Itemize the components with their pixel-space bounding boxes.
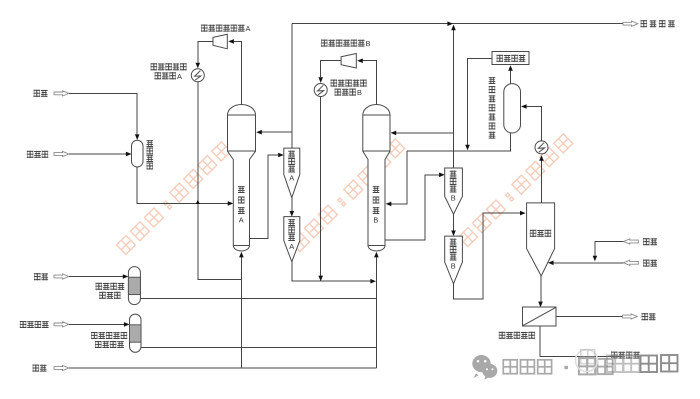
vessel: degasser tank A1 (脱气罐A) [284, 148, 300, 198]
flag: catalyst feed arrow [54, 151, 69, 156]
svg-text:B: B [451, 262, 456, 271]
equipment: tail gas compression box (尾气压缩) [492, 52, 529, 65]
flag: steam inlet arrow [624, 260, 639, 265]
svg-text:B: B [357, 88, 362, 97]
compressor C-B: recycle gas compressor B [341, 54, 356, 69]
label: degasser tank A1 vertical [288, 151, 295, 183]
vessel: ethylene dehydrator-deoxidizer (乙烯脱水脱氧器) [128, 267, 140, 305]
watermark: wechat icon [472, 355, 497, 380]
pipe: degasser B1 overhead riser to purge header [451, 25, 456, 168]
heat-exchanger E-B: reactor top gas cooler B [314, 84, 327, 97]
pipe: reactor B overhead riser to compressor B [357, 58, 376, 104]
svg-text:A: A [289, 242, 294, 251]
vessel: degasser tank B2 (脱气罐B) [445, 236, 463, 284]
svg-text:A: A [289, 174, 294, 183]
label: comonomer separator drum vertical [489, 77, 496, 139]
flag: ethylene feed arrow [54, 274, 69, 279]
flag: nitrogen purge inlet arrow [624, 239, 639, 244]
flag: hydrogen feed arrow [54, 365, 69, 370]
vessel: purifier box (净化箱) [527, 203, 555, 276]
watermark: pink diagonal text instance 2 [290, 139, 404, 252]
label: product destination (造粒料仓) small [611, 352, 640, 359]
vessel: degasser tank A2 (脱气罐A) [284, 217, 300, 262]
pipe: comonomer into dehydrator [69, 322, 130, 327]
pipe: purifier overhead exchanger to separator drum inlet [521, 104, 542, 140]
svg-text:B: B [373, 216, 378, 225]
label: catalyst tank (催化剂罐) vertical [147, 140, 154, 170]
pipe: separator drum bottoms + tail gas recycle header [407, 133, 511, 151]
svg-text:A: A [246, 24, 251, 33]
reactor R-B: vessel (反应器B) [363, 105, 390, 252]
pipe: degasser B1 to degasser B2 [451, 214, 456, 236]
pipe: nitrogen purge joins steam line [593, 242, 624, 262]
equipment: screen separator (筛分分离器) [523, 307, 557, 326]
watermark: ghost circle overlay [576, 350, 598, 372]
pipe: reactor A bottom product to degasser A1 [250, 153, 284, 239]
watermark: gray text 化工程师 large [607, 355, 678, 372]
pipe: degasser A2 bottoms to reactor B feed [292, 262, 376, 284]
pipe: hydrogen manifold to reactors [69, 367, 376, 369]
svg-text:B: B [451, 194, 456, 203]
label: reactor top gas exchanger B (反应器顶气换热器B) [331, 80, 367, 98]
label: comonomer feed (共聚单体) [20, 321, 49, 328]
flag: waste outlet arrow [623, 314, 638, 319]
flag: purification recovery outlet arrow [623, 21, 638, 26]
pipe: purifier box bottom to screen separator [538, 276, 543, 307]
pipe: degasser A1 overhead recycle into reactor A top [256, 130, 292, 135]
pipe: degasser B1 overhead recycle into reactor B top [391, 131, 454, 136]
pipe: ethylene manifold to reactors [140, 298, 376, 300]
vessel: catalyst tank (催化剂罐) [132, 140, 144, 167]
compressor C-A: recycle gas compressor A [213, 34, 227, 49]
label: ethylene feed (乙烯) [34, 273, 48, 280]
label: degasser tank B2 vertical [450, 239, 457, 271]
pipe: compressor A discharge to exchanger A [196, 41, 214, 68]
label: nitrogen feed (氮气) [34, 90, 48, 97]
pipe: compressor B discharge to exchanger B [318, 61, 341, 83]
label: screen separator (筛分分离器) [499, 332, 535, 339]
pipe: nitrogen to catalyst tank [69, 93, 140, 140]
pipe: degasser A1 overhead riser to purge header [291, 24, 293, 148]
heat-exchanger E-A: reactor top gas cooler A [191, 69, 204, 82]
pipe: screen separator waste outlet [556, 316, 622, 318]
svg-text:A: A [239, 216, 244, 225]
flag: nitrogen feed arrow [54, 91, 69, 96]
pipe: purge gas header to purification recovery [292, 21, 623, 26]
vessel: degasser tank B1 (脱气罐B) [445, 168, 463, 214]
reactor R-A: vessel (反应器A) [228, 105, 256, 252]
pipe: purifier box top gas up to exchanger [539, 155, 544, 203]
vessel: comonomer separator drum (共聚单体分离罐) [504, 84, 521, 133]
junction: exchanger line joins catalyst line [196, 200, 200, 204]
pipe: reactor B bottom feed riser [374, 252, 379, 368]
label: purification recovery (净化回收) [641, 20, 675, 27]
pipe: degasser A1 to degasser A2 [290, 198, 295, 217]
pipe: ethylene into dehydrator [69, 274, 128, 279]
label: nitrogen purge (氮气) right side [643, 238, 657, 245]
flag: comonomer feed arrow [54, 322, 69, 327]
pipe: separator drum overhead to tail gas compressor [508, 65, 513, 83]
label: comonomer dehydrator (共聚单体脱/水脱氧器) [91, 332, 127, 348]
pipe: exchanger A down to reactor A feed header [198, 82, 242, 280]
label: reactor top gas exchanger A (反应器顶气换热器A) [151, 63, 187, 81]
pipe: reactor B bottom product to degasser B1 [385, 173, 445, 241]
label: waste (废料) [642, 313, 656, 320]
heat-exchanger E-R: purifier overhead cooler [535, 141, 548, 154]
pipe: reactor A overhead riser to compressor A [228, 39, 241, 104]
pipe: exchanger B down to reactor B feed header [318, 97, 323, 282]
label: degasser tank B1 vertical [450, 171, 457, 203]
label: recycle gas compressor B (循环气压缩机B) [321, 39, 371, 48]
svg-text:A: A [177, 72, 182, 81]
watermark: pink diagonal text instance 1 [116, 142, 230, 255]
pipe: steam into purifier box cone [548, 261, 624, 266]
label: catalyst feed (催化剂) [27, 151, 48, 158]
vessel: comonomer dehydrator-deoxidizer (共聚单体脱水脱氧器) [130, 314, 142, 352]
label: ethylene dehydrator (乙烯脱水/脱氧器) [96, 283, 125, 299]
pipe: reactor A bottom feed riser [239, 252, 244, 368]
pipe: comonomer manifold to reactors [141, 347, 376, 349]
pipe: catalyst tank bottom to reactor A inlet [137, 167, 233, 206]
label: purifier box (净化箱) [530, 230, 551, 237]
label: hydrogen feed (氢气) [33, 365, 47, 372]
svg-text:B: B [366, 39, 371, 48]
pipe: screen separator product to pellet bin [540, 326, 622, 357]
watermark: pink diagonal text instance 3 [458, 134, 572, 247]
pipe: catalyst into tank side [69, 152, 132, 157]
label: steam (蒸汽) [643, 260, 657, 267]
pipe: recycle header down into reactor B side [386, 151, 407, 206]
pipe: tail gas compressor discharge to recycle header [465, 58, 492, 150]
label: reactor B (反应器B) vertical [373, 186, 380, 225]
watermark: gray text 公众号·化工 [503, 358, 612, 374]
label: recycle gas compressor A (循环气压缩机A) [201, 24, 251, 33]
label: reactor A (反应器A) vertical [238, 186, 245, 225]
pipe: degasser B2 bottoms to purifier box [454, 211, 526, 299]
label: degasser tank A2 vertical [288, 219, 295, 251]
